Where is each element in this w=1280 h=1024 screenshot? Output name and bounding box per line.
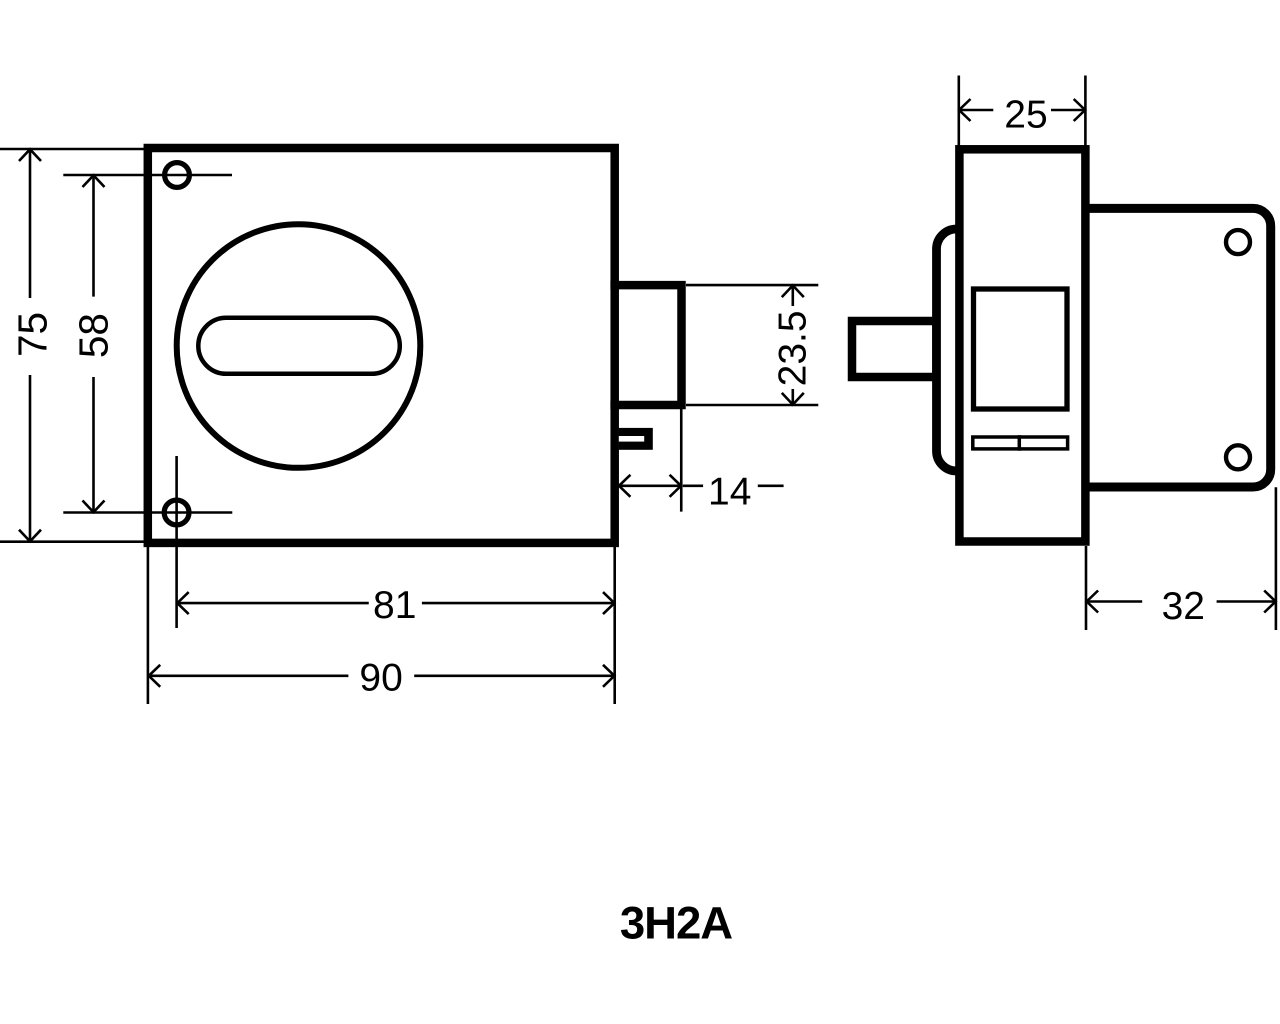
- dim 58 line lower segment: [92, 377, 95, 513]
- dim 32 extension line left: [1085, 546, 1088, 630]
- screw hole bottom-left: [164, 500, 189, 525]
- dim 32 line right segment: [1217, 600, 1276, 603]
- dim 14 line: [619, 484, 682, 487]
- dim 14 arrow right: [670, 475, 681, 497]
- dim 32 arrow right: [1264, 591, 1275, 613]
- dim 58 arrow down: [83, 501, 105, 513]
- dim 58 extension line bottom: [63, 511, 232, 514]
- dim 58 arrow up: [83, 175, 105, 187]
- dim 81 arrow right: [603, 592, 614, 614]
- dim 75 line upper segment: [29, 149, 32, 298]
- dim 90 extension line right vertical: [613, 547, 616, 704]
- dim 75 arrow up: [19, 149, 41, 161]
- dim 25 extension line left: [957, 76, 960, 147]
- screw hole top-left: [165, 163, 190, 188]
- dim 75 line lower segment: [29, 375, 32, 542]
- lock case front outline: [148, 148, 615, 543]
- dim 25 extension line right: [1084, 76, 1087, 147]
- dim 81 line right segment: [422, 602, 615, 605]
- dim 75 extension line bottom: [0, 540, 145, 543]
- side view inner mechanism rect: [974, 289, 1068, 409]
- dim 14 extension line vertical: [680, 409, 683, 512]
- dim 23.5 arrow down: [782, 393, 804, 405]
- svg-text:58: 58: [70, 313, 116, 358]
- dim 25 line left segment: [959, 109, 994, 112]
- svg-text:25: 25: [1004, 94, 1047, 137]
- dim 14 line stub right of arrow: [683, 484, 703, 487]
- dim 14 trailing dash: [758, 484, 784, 487]
- dim 23.5 line lower segment: [791, 389, 794, 405]
- dim 90 arrow left: [149, 665, 160, 687]
- side view lock body: [959, 149, 1085, 541]
- backplate hole bottom: [1226, 445, 1250, 469]
- dim 75 extension line top: [0, 148, 145, 151]
- dim 81 extension line left vertical: [175, 456, 178, 628]
- thumbturn slot: [198, 318, 399, 374]
- dim 23.5 extension line bottom: [686, 404, 818, 407]
- dim 32 extension line right: [1275, 487, 1278, 630]
- strike tab: [619, 428, 653, 450]
- dim 32 line left segment: [1086, 600, 1142, 603]
- dim 23.5 line upper segment: [791, 285, 794, 306]
- dim 23.5 arrow up: [782, 285, 804, 297]
- side view cylinder housing: [937, 229, 982, 471]
- dim 25 arrow right: [1074, 99, 1085, 121]
- dim 58 line upper segment: [92, 175, 95, 297]
- dim 90 line right segment: [414, 674, 615, 677]
- dim 81 line left segment: [177, 602, 369, 605]
- side view bolt: [852, 321, 937, 377]
- thumbturn rosette: [177, 224, 421, 468]
- side view lower bar: [973, 437, 1068, 449]
- dim 25 arrow left: [959, 99, 970, 121]
- dim 25 line right segment: [1051, 109, 1085, 112]
- svg-text:3H2A: 3H2A: [620, 898, 732, 949]
- dim 90 extension line left vertical: [147, 547, 150, 704]
- svg-text:75: 75: [9, 312, 55, 357]
- latch bolt front view: [610, 285, 681, 405]
- backplate hole top: [1226, 230, 1250, 254]
- svg-text:90: 90: [359, 656, 402, 699]
- side view lower bar divider: [1018, 435, 1022, 451]
- side view backplate: [1085, 208, 1270, 487]
- svg-text:32: 32: [1162, 585, 1205, 628]
- svg-text:81: 81: [373, 584, 416, 627]
- dim 23.5 extension line top: [686, 284, 818, 287]
- dim 14 arrow left: [619, 475, 630, 497]
- dim 32 arrow left: [1087, 591, 1098, 613]
- dim 58 extension line top: [63, 174, 232, 177]
- svg-text:23.5: 23.5: [771, 310, 814, 386]
- dim 75 arrow down: [19, 530, 41, 542]
- svg-text:14: 14: [708, 471, 751, 514]
- dim 90 line left segment: [149, 674, 349, 677]
- dim 81 arrow left: [177, 592, 188, 614]
- dim 90 arrow right: [603, 665, 614, 687]
